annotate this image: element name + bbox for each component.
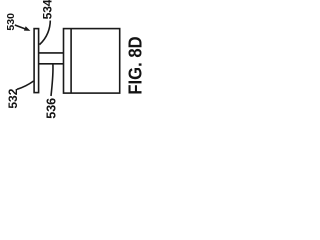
svg-text:FIG. 8D: FIG. 8D — [125, 36, 146, 94]
svg-text:534: 534 — [41, 0, 55, 19]
svg-text:536: 536 — [45, 98, 59, 119]
svg-text:532: 532 — [6, 88, 20, 108]
right block outline — [64, 29, 120, 94]
leader line 534 — [40, 21, 51, 45]
leader line 530 (arrow shaft) — [15, 25, 27, 29]
web (crossbar of H) — [39, 53, 64, 64]
svg-text:530: 530 — [5, 13, 17, 31]
leader line 532 — [17, 81, 34, 89]
left flange (outer plate of H) — [34, 29, 39, 93]
arrowhead 530 — [24, 26, 31, 31]
leader line 536 — [51, 64, 53, 96]
inner plate divider line — [70, 29, 72, 94]
